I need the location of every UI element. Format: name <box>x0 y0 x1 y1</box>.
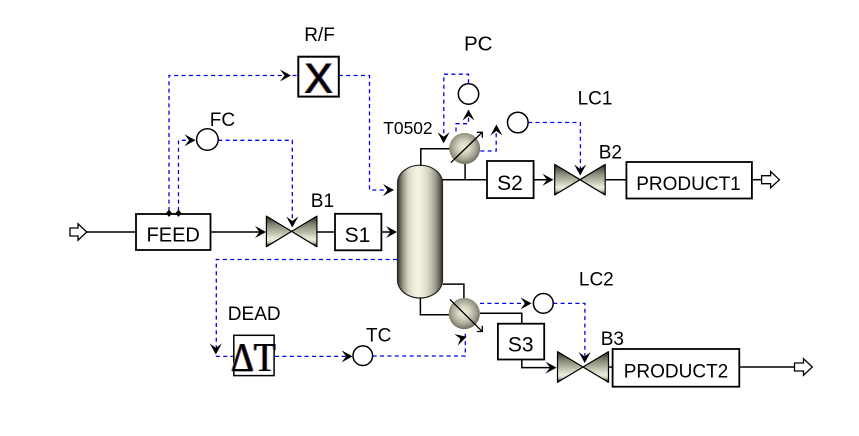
svg-text:PRODUCT1: PRODUCT1 <box>636 174 741 195</box>
wire: column bottom to reboiler <box>420 298 449 315</box>
svg-text:PRODUCT2: PRODUCT2 <box>624 362 729 383</box>
wire: S2 to valve B2 <box>534 179 551 181</box>
controller LC1 <box>508 112 529 133</box>
controller TC <box>353 346 373 366</box>
wire dashed: FC output to valve B1 <box>218 140 292 226</box>
feed inlet arrow <box>70 224 87 240</box>
svg-text:FEED: FEED <box>147 225 200 247</box>
svg-text:DEAD: DEAD <box>228 304 281 325</box>
svg-text:B2: B2 <box>599 142 622 163</box>
wire: B1 to S1 <box>317 231 335 233</box>
wire: FEED to valve B1 <box>211 231 265 233</box>
wire: inlet to FEED <box>87 231 136 233</box>
wire dashed: LC2 output to valve B3 <box>553 303 585 361</box>
wire dashed: condenser to PC <box>456 110 469 132</box>
svg-text:LC2: LC2 <box>579 270 614 291</box>
svg-text:B1: B1 <box>311 191 334 212</box>
svg-text:R/F: R/F <box>304 25 335 46</box>
wire: condenser down to distillate junction <box>464 164 466 180</box>
wire dashed: R/F output to column <box>339 76 392 191</box>
wire: column top to condenser <box>421 149 450 166</box>
wire: PRODUCT1 to outlet <box>752 179 762 181</box>
valve B2 <box>555 164 606 195</box>
reboiler <box>449 298 483 332</box>
svg-text:S3: S3 <box>508 334 534 357</box>
svg-text:FC: FC <box>210 110 235 131</box>
svg-text:ΔT: ΔT <box>231 336 276 381</box>
wire: reflux junction to S2 <box>442 179 487 181</box>
product2 outlet arrow <box>795 359 813 375</box>
svg-text:S1: S1 <box>345 224 371 247</box>
svg-text:B3: B3 <box>601 329 624 350</box>
node: measurement tap diamonds on FEED <box>166 210 182 217</box>
wire: B3 to PRODUCT2 <box>609 366 613 368</box>
svg-text:T0502: T0502 <box>383 118 432 138</box>
wire: column side draw to reboiler top <box>443 284 464 298</box>
column T0502 <box>398 165 443 298</box>
condenser <box>449 132 482 164</box>
wire dashed: column temperature to DEAD to TC <box>216 260 397 357</box>
wire: S3 to valve B3 <box>522 360 555 368</box>
controller FC <box>197 129 219 151</box>
controller PC <box>458 84 478 104</box>
block S2 <box>487 161 534 198</box>
multiplier R/F <box>298 55 339 103</box>
controller LC2 <box>533 294 553 314</box>
svg-text:PC: PC <box>464 33 493 56</box>
svg-text:LC1: LC1 <box>578 89 613 110</box>
block PRODUCT2 <box>613 349 740 387</box>
wire dashed: condenser level to LC1 <box>480 126 496 151</box>
product1 outlet arrow <box>762 172 780 188</box>
valve B3 <box>558 352 609 383</box>
block FEED <box>136 214 211 250</box>
wire dashed: reboiler level to LC2 <box>480 302 530 304</box>
wire: B2 to PRODUCT1 <box>605 179 626 181</box>
block PRODUCT1 <box>626 162 752 199</box>
wire dashed: FEED measurement to FC <box>179 140 195 211</box>
wire: reboiler to S3 <box>480 313 522 323</box>
wire dashed: LC1 output to valve B2 <box>528 123 580 174</box>
svg-text:TC: TC <box>366 325 391 346</box>
block S1 <box>335 214 381 251</box>
svg-text:X: X <box>304 55 333 103</box>
wire: S1 to column <box>381 231 395 233</box>
wire dashed: TC output to reboiler <box>373 333 466 356</box>
valve B1 <box>266 216 317 247</box>
block S3 <box>498 324 544 360</box>
wire dashed: FEED measurement to R/F <box>169 76 297 212</box>
svg-text:S2: S2 <box>497 172 523 195</box>
wire dashed: PC output to condenser pipe <box>444 74 469 140</box>
wire: PRODUCT2 to outlet <box>739 366 794 368</box>
deadtime block DT <box>230 335 276 380</box>
